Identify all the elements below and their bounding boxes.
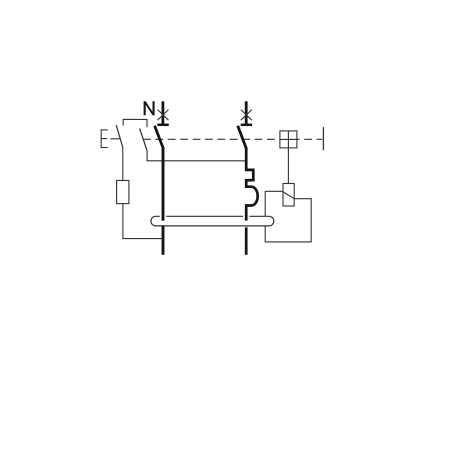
resistor R (test resistor) [117,181,129,204]
switch Q1 pole 1 main blade [155,126,164,149]
push button T (test button actuator) [101,129,108,148]
wire: mechanical linkage (dashed) [143,138,322,140]
current transformer T1 toroid [151,216,274,226]
terminal X1 (pole 1 clamp) [157,101,168,125]
wire: button link to test contact [110,138,120,140]
switch S1 test contact blade [116,125,123,148]
breaker F1 thermal and magnetic release on pole 2 [246,148,258,211]
wire: resistor to pole 1 downstream [123,204,163,239]
wire: pole 1 conductor through toroid [160,210,166,221]
switch S2 aux contact blade [140,129,148,152]
wire: square to relay [287,148,289,184]
wire: test button to resistor [122,147,124,180]
node N label [144,101,155,115]
test button TB square with cross [280,131,297,148]
terminal X2 (pole 2 clamp) [241,101,252,125]
wire: pole 2 conductor lower [245,227,248,255]
relay K1 (differential trip relay) [283,184,294,207]
wire: pole 2 conductor through toroid [243,210,249,221]
wire: pole 1 conductor lower [162,225,165,254]
wire: linkage end tick (handle) [322,127,324,150]
switch Q2 pole 2 main blade [238,126,247,149]
wire: aux contact to pole 2 (horizontal) [147,151,246,161]
wire: linkage bracket between test and aux contacts [123,119,147,127]
wire: pole 1 conductor upper [162,148,165,211]
wire: secondary circuit box from toroid to relay [265,191,311,242]
